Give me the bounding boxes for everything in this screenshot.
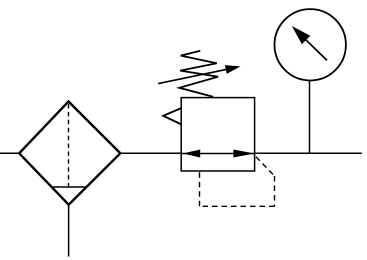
pilot line: bottom horizontal segment [200, 205, 275, 207]
wire: flow path through regulator [182, 153, 254, 155]
wire: gauge stem [309, 80, 311, 153]
wire: inlet line to filter [0, 152, 20, 154]
regulator: left flow arrowhead [183, 150, 201, 158]
wire: drain line [68, 205, 70, 257]
pilot line: diagonal segment [256, 157, 275, 176]
regulator: adjustment spring [179, 51, 218, 97]
regulator: right flow arrowhead [233, 150, 254, 158]
pilot line: left vertical segment [199, 171, 201, 206]
pressure gauge: dial circle [275, 9, 346, 80]
filter F1: dashed condensate line [68, 104, 70, 187]
wire: filter to regulator [120, 152, 181, 154]
wire: regulator to outlet [255, 152, 362, 154]
pressure gauge: needle arrowhead [292, 26, 311, 44]
filter F1: diamond body [19, 102, 120, 205]
pilot line: right vertical segment [274, 176, 276, 206]
pressure gauge: needle shaft [306, 40, 327, 60]
regulator: adjustment arrow shaft [158, 69, 227, 83]
filter F1: water trap baffle [50, 186, 86, 188]
regulator: adjustment arrowhead [225, 65, 241, 74]
regulator: spring seat symbol [163, 108, 181, 124]
regulator body [181, 98, 254, 171]
